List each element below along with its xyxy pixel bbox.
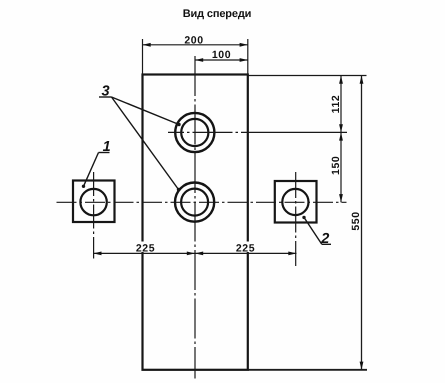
label 3 shelf — [99, 96, 112, 98]
dim 225 right right arrow — [288, 252, 296, 256]
svg-text:112: 112 — [330, 95, 342, 114]
plate vertical centerline — [194, 56, 196, 379]
hole 3 bottom outer circle — [175, 183, 214, 222]
dim line 225 left — [93, 252, 195, 254]
label 3 leader to top hole — [112, 97, 180, 125]
dim 100 left arrow — [195, 58, 203, 62]
label 1 shelf — [99, 152, 110, 154]
dim 150 bottom arrow — [339, 194, 343, 202]
label 3 leader to bottom hole — [112, 97, 179, 190]
dim 112 bottom arrow — [339, 124, 343, 132]
label 1 leader — [84, 153, 99, 187]
dim line 550 — [361, 76, 363, 370]
label 2 leader — [304, 217, 322, 244]
pad 1 vertical centerline — [93, 172, 95, 259]
svg-text:200: 200 — [184, 34, 203, 46]
extension line left of dim 200 — [142, 39, 144, 75]
dim line 200 — [143, 44, 248, 46]
plate outline — [143, 75, 248, 370]
top extension line for dims 112 and 550 — [248, 75, 367, 77]
label 3 leader dot bottom — [177, 188, 180, 191]
dim 225 right left arrow — [195, 252, 203, 256]
halo behind 225 right text — [233, 242, 258, 253]
bottom extension line for dim 550 — [248, 369, 367, 371]
pad 1 circle — [80, 189, 106, 215]
label 3 leader dot top — [177, 123, 180, 126]
dim line 225 right — [195, 252, 297, 254]
horizontal centerline through pads and lower hole — [57, 201, 347, 203]
hole 3 top inner circle — [181, 119, 208, 146]
svg-text:Вид спереди: Вид спереди — [183, 8, 252, 20]
pad 2 circle — [282, 189, 308, 215]
halo behind 225 left text — [133, 242, 158, 253]
hole 3 bottom inner circle — [181, 189, 208, 216]
dim 112 top arrow — [339, 76, 343, 84]
hole 3 top horizontal centerline — [168, 131, 347, 133]
pad 2 right square — [275, 181, 317, 223]
dim line 150 — [340, 132, 342, 202]
dim line 100 — [195, 59, 248, 61]
dim 225 left right arrow — [187, 252, 195, 256]
label 2 leader dot — [302, 216, 305, 219]
extension line right of dims 200 and 100 — [247, 39, 249, 75]
svg-text:225: 225 — [236, 243, 255, 255]
dim 225 left left arrow — [93, 252, 101, 256]
dim 150 top arrow — [339, 132, 343, 140]
dim 550 top arrow — [360, 76, 364, 84]
dim line 112 — [340, 76, 342, 133]
dim 100 right arrow — [240, 58, 248, 62]
label 1 leader dot — [82, 185, 85, 188]
dim 550 bottom arrow — [360, 362, 364, 370]
pad 1 left square — [73, 181, 115, 223]
dim 200 right arrow — [240, 43, 248, 47]
dim 200 left arrow — [143, 43, 151, 47]
svg-text:100: 100 — [212, 49, 231, 61]
svg-text:225: 225 — [136, 243, 155, 255]
pad 2 vertical centerline — [295, 172, 297, 266]
hole 3 top outer circle — [175, 113, 214, 152]
label 2 shelf — [322, 243, 331, 245]
svg-text:550: 550 — [350, 211, 362, 230]
svg-text:150: 150 — [330, 156, 342, 175]
